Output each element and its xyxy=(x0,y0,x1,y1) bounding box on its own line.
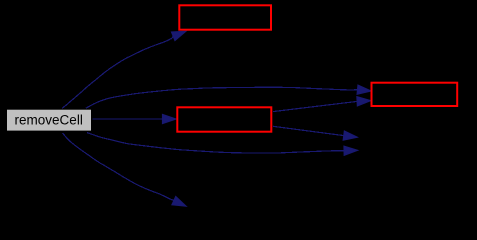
svg-text:removeCell: removeCell xyxy=(15,113,83,128)
edge removeCell->middle-box xyxy=(92,114,176,123)
node top red box (truncated callee) xyxy=(179,5,271,29)
edge removeCell->right-box xyxy=(86,85,371,108)
edge removeCell->hidden-node-1 xyxy=(87,133,358,156)
edge removeCell->top-box xyxy=(62,31,186,108)
edge removeCell->hidden-node-2 xyxy=(63,133,187,206)
node middle red box (truncated callee) xyxy=(177,107,271,131)
edge middle-box->right-box xyxy=(273,97,371,112)
edge middle-box->hidden-node-1 xyxy=(273,126,357,140)
node removeCell (current function, grey) xyxy=(7,109,92,131)
node right red box (truncated callee) xyxy=(372,83,458,106)
